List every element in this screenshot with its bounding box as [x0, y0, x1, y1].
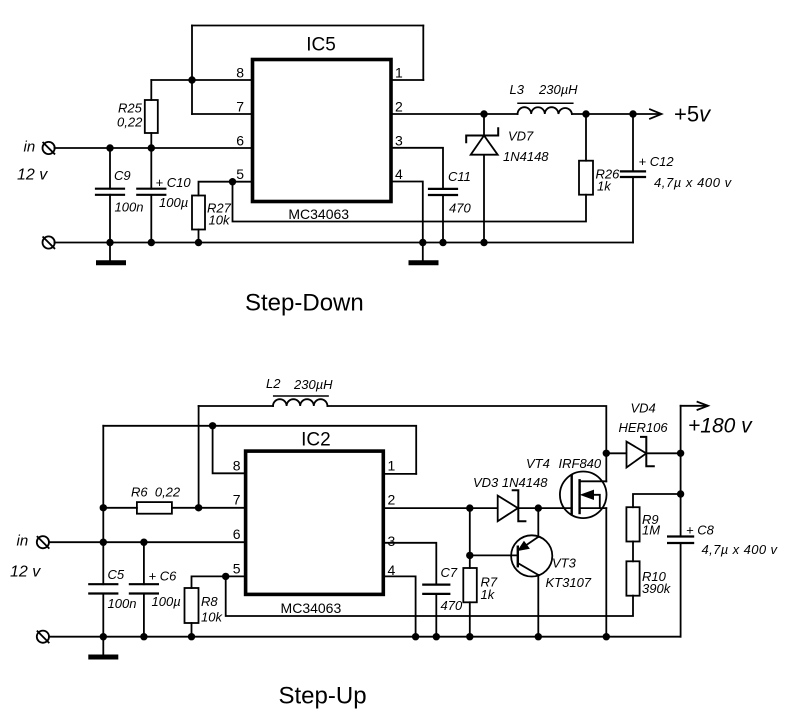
wire R9-R10 link	[632, 542, 634, 562]
node pin8 junction	[188, 76, 195, 83]
svg-text:6: 6	[236, 133, 244, 149]
resistor R7	[463, 568, 477, 602]
svg-text:100n: 100n	[108, 596, 137, 611]
node gnd C6	[140, 633, 147, 640]
ground symbol left	[96, 243, 126, 263]
svg-text:1k: 1k	[481, 587, 496, 602]
resistor R10	[626, 561, 639, 595]
svg-text:4: 4	[395, 166, 403, 182]
wire +180 rail	[680, 406, 682, 537]
svg-text:C7: C7	[441, 565, 458, 580]
svg-text:1: 1	[388, 458, 396, 474]
svg-text:100µ: 100µ	[159, 195, 188, 210]
capacitor C6	[130, 542, 158, 637]
svg-text:+ C10: + C10	[156, 175, 192, 190]
node VD7 top	[480, 110, 487, 117]
node gnd C5	[100, 633, 107, 640]
svg-text:4: 4	[388, 562, 396, 578]
wire ground line top	[55, 242, 634, 244]
wire R8 bottom lead	[191, 623, 193, 637]
IC IC5 MC34063 box	[253, 60, 392, 202]
node gnd C9	[106, 239, 113, 246]
node VD3 anode	[466, 504, 473, 511]
svg-text:C11: C11	[448, 169, 471, 184]
svg-text:3: 3	[388, 533, 396, 549]
diode VD3	[498, 490, 526, 521]
capacitor C5	[89, 584, 117, 637]
wire right loop vertical	[422, 26, 424, 81]
node C10 top	[148, 144, 155, 151]
wire pin8 drop	[213, 426, 246, 474]
wire VT3 collector	[537, 575, 539, 637]
node VD4 cathode	[677, 450, 684, 457]
terminal in bottom	[37, 536, 49, 548]
wire left loop vertical	[191, 26, 193, 115]
inductor L3	[518, 103, 573, 114]
svg-text:8: 8	[233, 458, 241, 474]
node C6 top	[140, 539, 147, 546]
svg-text:+ C6: + C6	[149, 569, 178, 584]
wire pin 7	[192, 113, 253, 115]
wire input line pin 6	[55, 147, 253, 149]
svg-text:1N4148: 1N4148	[503, 149, 549, 164]
wire pin 1	[383, 473, 416, 475]
wire R6 left lead	[103, 507, 137, 509]
wire R7 branch	[469, 508, 471, 568]
diode VD4	[627, 437, 654, 468]
wire pin 3 to C11	[391, 148, 443, 189]
wire R27 top lead	[199, 182, 233, 196]
wire feedback line bottom	[226, 576, 633, 616]
resistor R6	[137, 502, 172, 514]
svg-text:390k: 390k	[642, 581, 672, 596]
wire pin 1	[391, 79, 423, 81]
terminal gnd bottom	[37, 631, 49, 643]
resistor R26	[579, 114, 593, 195]
node gnd R7	[466, 633, 473, 640]
node gnd pin4	[419, 239, 426, 246]
wire top loop pin8-pin1	[192, 25, 423, 27]
resistor R25	[145, 100, 158, 133]
node gnd C10	[148, 239, 155, 246]
svg-text:4,7µ x 400 v: 4,7µ x 400 v	[702, 542, 779, 557]
svg-text:12 v: 12 v	[10, 564, 41, 581]
svg-text:VD3 1N4148: VD3 1N4148	[473, 475, 548, 490]
node C9 top	[106, 144, 113, 151]
svg-text:Step-Down: Step-Down	[245, 290, 364, 317]
node gnd VT3	[535, 633, 542, 640]
node gnd VT4	[603, 633, 610, 640]
node pin5 junction bottom	[222, 573, 229, 580]
node VD4 anode	[603, 450, 610, 457]
svg-text:1: 1	[395, 65, 403, 81]
wire L2 line	[199, 406, 607, 481]
wire pin 3 to C7	[383, 543, 436, 585]
wire feedback line top	[233, 182, 587, 222]
svg-text:3: 3	[395, 133, 403, 149]
wire left rail	[102, 426, 104, 584]
svg-text:in: in	[17, 533, 29, 550]
wire VT4 source down	[605, 508, 607, 637]
svg-text:VD4: VD4	[631, 401, 656, 416]
wire R25 leads	[150, 80, 152, 189]
wire R8 top lead	[192, 576, 226, 588]
ground symbol mid	[409, 243, 439, 263]
svg-text:IC2: IC2	[301, 430, 331, 451]
svg-text:VT3: VT3	[552, 556, 577, 571]
arrow +5v	[650, 109, 662, 118]
svg-text:HER106: HER106	[619, 420, 669, 435]
wire VD4 line	[606, 452, 680, 454]
svg-text:1M: 1M	[642, 523, 660, 538]
svg-text:L3: L3	[510, 82, 525, 97]
wire pin 8	[151, 79, 252, 81]
terminal in top	[43, 142, 55, 154]
svg-text:5: 5	[236, 166, 244, 182]
node C12 top	[629, 110, 636, 117]
svg-text:100n: 100n	[115, 200, 144, 215]
wire R9 top lead	[633, 494, 681, 507]
capacitor C8	[668, 537, 693, 637]
svg-text:+5v: +5v	[674, 102, 712, 127]
svg-text:in: in	[24, 139, 36, 156]
svg-text:R8: R8	[201, 594, 218, 609]
node gnd VD7	[480, 239, 487, 246]
IC IC2 MC34063 box	[246, 451, 384, 594]
svg-text:5: 5	[233, 561, 241, 577]
node gnd pin4 bottom	[412, 633, 419, 640]
wire VT3 base lead	[470, 554, 518, 556]
svg-text:2: 2	[388, 492, 396, 508]
wire ground line bottom	[49, 636, 681, 638]
resistor R9	[626, 507, 639, 541]
svg-text:MC34063: MC34063	[288, 206, 349, 222]
node R26 top	[582, 110, 589, 117]
svg-text:7: 7	[236, 99, 244, 115]
svg-text:KT3107: KT3107	[546, 575, 592, 590]
node gnd C7	[433, 633, 440, 640]
capacitor C7	[423, 585, 449, 637]
wire pin 2 output	[391, 113, 659, 115]
wire pin 4 to ground	[391, 182, 423, 243]
wire R27 bottom lead	[198, 230, 200, 243]
svg-text:10k: 10k	[209, 213, 231, 228]
svg-text:100µ: 100µ	[152, 594, 181, 609]
wire pin 5	[233, 181, 253, 183]
transistor VT4 mosfet	[560, 472, 607, 519]
wire loop pin8-pin1 bottom	[103, 426, 416, 474]
node R6 left	[100, 504, 107, 511]
svg-text:VD7: VD7	[508, 129, 534, 144]
svg-text:6: 6	[233, 526, 241, 542]
svg-text:C9: C9	[114, 168, 131, 183]
node VT3 base junction	[466, 552, 473, 559]
node gnd C11	[439, 239, 446, 246]
svg-text:470: 470	[441, 598, 463, 613]
svg-text:VT4: VT4	[526, 456, 550, 471]
node gnd R27	[195, 239, 202, 246]
svg-text:1k: 1k	[597, 179, 612, 194]
node VD3 cathode	[535, 504, 542, 511]
capacitor C10	[137, 189, 165, 243]
node pin5 junction	[229, 178, 236, 185]
capacitor C12	[621, 114, 645, 243]
svg-text:230µH: 230µH	[538, 82, 578, 97]
wire pin 7	[172, 507, 246, 509]
svg-text:R6 0,22: R6 0,22	[131, 485, 181, 500]
svg-text:2: 2	[395, 99, 403, 115]
inductor L2	[273, 396, 328, 406]
node loop junction	[209, 422, 216, 429]
svg-text:L2: L2	[266, 376, 281, 391]
svg-text:C5: C5	[108, 567, 125, 582]
transistor VT3	[511, 535, 552, 576]
node gnd R8	[188, 633, 195, 640]
svg-text:7: 7	[233, 492, 241, 508]
svg-text:4,7µ x 400 v: 4,7µ x 400 v	[654, 175, 733, 190]
ground symbol bottom	[88, 637, 118, 657]
svg-text:+ C8: + C8	[686, 523, 715, 538]
wire pin 2	[383, 507, 571, 509]
svg-text:+ C12: + C12	[639, 154, 675, 169]
wire pin 5	[226, 575, 246, 577]
svg-text:IC5: IC5	[306, 35, 336, 56]
diode VD7	[466, 114, 498, 243]
wire R7 bottom lead	[469, 602, 471, 636]
svg-text:470: 470	[449, 201, 471, 216]
wire VT3 emitter	[537, 508, 539, 537]
resistor R8	[185, 588, 199, 623]
capacitor C9	[96, 148, 124, 243]
node pin7 L2 junction	[195, 504, 202, 511]
wire input line pin 6	[49, 541, 246, 543]
svg-text:Step-Up: Step-Up	[279, 683, 367, 710]
node R9 junction	[677, 490, 684, 497]
wire pin 4 to ground	[383, 576, 415, 636]
svg-text:+180 v: +180 v	[688, 415, 753, 438]
node C5 top	[100, 539, 107, 546]
svg-text:MC34063: MC34063	[281, 600, 342, 616]
capacitor C11	[429, 189, 457, 243]
svg-text:R25: R25	[118, 101, 143, 116]
terminal gnd top	[43, 236, 55, 248]
svg-text:10k: 10k	[201, 610, 223, 625]
svg-text:8: 8	[236, 65, 244, 81]
wire L2 left vertical	[198, 406, 200, 508]
svg-text:0,22: 0,22	[117, 115, 143, 130]
arrow +180	[681, 402, 708, 410]
svg-text:12 v: 12 v	[17, 167, 48, 184]
svg-text:IRF840: IRF840	[559, 456, 602, 471]
svg-text:230µH: 230µH	[293, 377, 333, 392]
resistor R27	[192, 196, 205, 230]
